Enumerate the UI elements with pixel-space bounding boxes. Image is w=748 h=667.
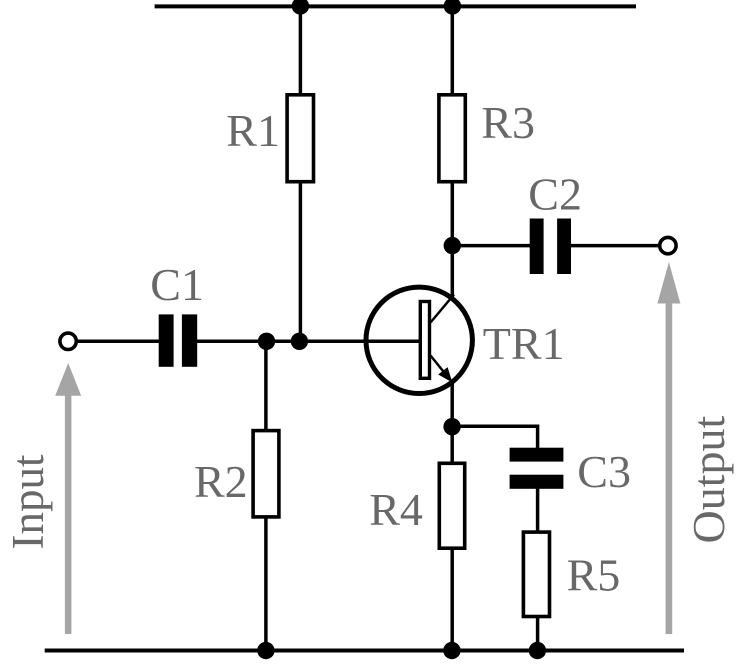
transistor TR1 emitter diagonal <box>431 356 448 377</box>
svg-text:R4: R4 <box>369 484 423 535</box>
node ground R4 junction <box>443 642 460 659</box>
resistor R1 <box>287 95 313 182</box>
resistor R5 <box>523 532 549 616</box>
svg-text:R2: R2 <box>194 456 248 507</box>
svg-text:R5: R5 <box>567 550 621 601</box>
node ground R5 junction <box>529 642 546 659</box>
node base junction R2 <box>258 333 275 350</box>
wire C1 to base of TR1 <box>196 340 420 344</box>
input arrow <box>55 363 81 634</box>
transistor TR1 base bar <box>420 302 429 379</box>
wire collector node to C2 <box>452 244 530 248</box>
wire R5 bottom (R5 to ground) <box>536 617 540 651</box>
input terminal <box>60 333 76 349</box>
capacitor C2 plate right <box>557 219 571 275</box>
capacitor C2 plate left <box>530 219 544 275</box>
node emitter junction <box>443 418 460 435</box>
output terminal <box>660 237 676 253</box>
wire C3 to R5 <box>536 488 540 532</box>
wire R1 top (rail to R1) <box>299 6 303 94</box>
output arrow <box>657 262 680 634</box>
capacitor C3 plate top <box>510 448 564 462</box>
wire R1 bottom (R1 to base node) <box>299 182 303 341</box>
capacitor C1 plate right <box>182 314 197 366</box>
transistor TR1 collector diagonal <box>431 295 455 323</box>
node top rail R3 junction <box>444 0 461 15</box>
wire collector node to transistor <box>451 246 455 298</box>
node base junction R1 <box>291 333 308 350</box>
wire emitter node to R4 <box>450 427 454 464</box>
wire R3 bottom (R3 to collector node) <box>451 182 455 246</box>
svg-text:R3: R3 <box>481 97 535 148</box>
wire input terminal to C1 <box>76 340 160 344</box>
capacitor C3 plate bottom <box>510 475 564 489</box>
transistor TR1 emitter arrowhead <box>438 367 452 382</box>
svg-text:R1: R1 <box>226 105 280 156</box>
svg-text:C1: C1 <box>150 259 204 310</box>
svg-text:TR1: TR1 <box>483 318 565 369</box>
wire R3 top (rail to R3) <box>451 6 455 94</box>
wire R2 bottom (R2 to ground) <box>264 517 268 651</box>
resistor R3 <box>439 95 465 182</box>
svg-text:C2: C2 <box>528 169 582 220</box>
resistor R4 <box>439 463 464 548</box>
wire top supply rail <box>155 4 636 8</box>
svg-text:Output: Output <box>683 416 734 544</box>
node ground R2 junction <box>257 642 274 659</box>
resistor R2 <box>253 431 279 517</box>
svg-text:Input: Input <box>3 454 53 549</box>
node top rail R1 junction <box>292 0 309 15</box>
wire emitter to emitter node <box>450 381 454 427</box>
wire ground rail <box>45 649 684 653</box>
transistor Q TR1 circle <box>366 287 472 393</box>
capacitor C1 plate left <box>159 314 174 366</box>
node collector C2 junction <box>444 237 461 254</box>
wire R4 bottom (R4 to ground) <box>450 548 454 650</box>
wire R2 top (base node to R2) <box>264 341 268 430</box>
wire emitter node to C3 branch horizontal <box>452 426 537 449</box>
svg-text:C3: C3 <box>577 446 631 497</box>
wire C2 to output terminal <box>571 244 661 248</box>
